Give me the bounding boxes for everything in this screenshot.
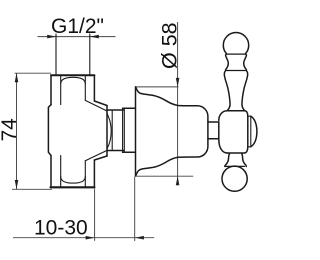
- svg-text:Ø 58: Ø 58: [157, 22, 181, 69]
- svg-text:10-30: 10-30: [34, 217, 88, 240]
- svg-text:74: 74: [0, 118, 21, 142]
- svg-text:G1/2": G1/2": [51, 15, 104, 38]
